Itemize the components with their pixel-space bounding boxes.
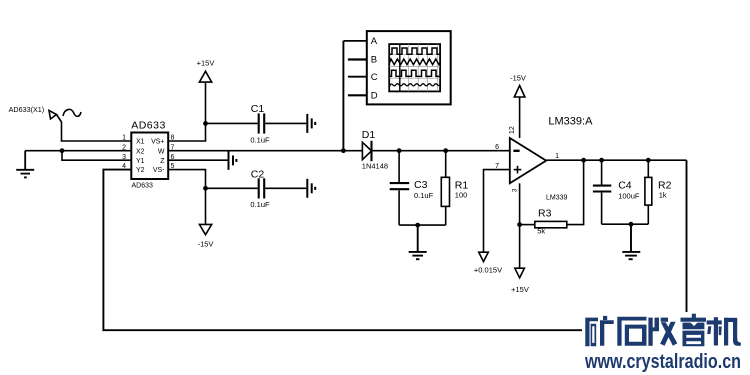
svg-text:A: A xyxy=(371,36,378,47)
svg-text:+15V: +15V xyxy=(511,285,529,294)
svg-text:+15V: +15V xyxy=(197,59,215,68)
svg-text:B: B xyxy=(371,55,377,66)
ground G1 xyxy=(16,151,34,178)
wire pin6 Z xyxy=(168,159,227,161)
wire plus input xyxy=(484,170,510,253)
char yin xyxy=(681,314,707,347)
wire C3 R1 bottom xyxy=(399,224,446,226)
svg-text:Y2: Y2 xyxy=(136,167,145,174)
wire pin5 VS- to -15V xyxy=(168,170,205,225)
wire pin7 W output main xyxy=(168,150,362,152)
junction dot feedback tap xyxy=(581,158,586,163)
svg-text:Z: Z xyxy=(160,158,165,165)
power -15V arrow (up) xyxy=(514,86,525,98)
scope waveform D sine xyxy=(390,84,440,87)
power -15V arrow xyxy=(199,224,211,234)
capacitor C1 xyxy=(259,113,265,133)
svg-text:D1: D1 xyxy=(362,129,376,141)
scope waveform B triangle xyxy=(390,59,440,65)
svg-text:D: D xyxy=(371,90,378,101)
oscilloscope box xyxy=(367,31,451,104)
svg-text:LM339:A: LM339:A xyxy=(548,116,593,128)
plus input mark xyxy=(514,166,522,174)
svg-text:X2: X2 xyxy=(136,148,145,155)
wire C1 right xyxy=(265,122,306,124)
svg-text:www.crystalradio.cn: www.crystalradio.cn xyxy=(584,350,741,373)
svg-text:0.1uF: 0.1uF xyxy=(414,191,434,200)
scope waveform A square xyxy=(390,48,440,54)
junction dot C2 tap xyxy=(203,186,208,191)
char shou xyxy=(648,318,677,346)
wire output xyxy=(546,159,686,161)
watermark white mask xyxy=(582,312,750,375)
svg-text:0.1uF: 0.1uF xyxy=(250,200,270,209)
wire scope stub C xyxy=(348,76,367,78)
junction dot scope tap xyxy=(341,148,346,153)
svg-text:1k: 1k xyxy=(659,190,667,199)
svg-text:5k: 5k xyxy=(537,227,545,236)
resistor R2 xyxy=(645,160,652,224)
power +15V arrow (down) xyxy=(515,268,525,278)
svg-text:2: 2 xyxy=(122,144,126,151)
ground G3 xyxy=(622,224,640,259)
junction dot ground tap 2 xyxy=(629,222,634,227)
wire scope A to main node xyxy=(342,41,344,151)
minus input mark xyxy=(513,150,519,152)
diode D1 xyxy=(362,141,371,161)
svg-text:-15V: -15V xyxy=(198,240,214,249)
junction dot R2 tap xyxy=(646,158,651,163)
op-amp LM339:A triangle xyxy=(510,138,546,183)
capacitor C4 xyxy=(593,160,611,224)
wire D1 cathode to comparator xyxy=(372,150,510,152)
scope waveform C square xyxy=(390,70,440,76)
scope grid xyxy=(389,44,440,91)
char shi xyxy=(617,317,646,346)
svg-text:1: 1 xyxy=(555,153,559,160)
wire C1 left xyxy=(206,122,258,124)
wire pin12 to -15V xyxy=(519,97,521,138)
svg-text:VS+: VS+ xyxy=(151,139,164,146)
wire ground to pin2 X2 xyxy=(25,150,131,152)
svg-text:W: W xyxy=(158,148,165,155)
wire C2 right xyxy=(265,187,306,189)
resistor R3 xyxy=(520,160,584,228)
input probe antenna symbol xyxy=(49,109,81,122)
svg-text:X1: X1 xyxy=(136,139,145,146)
AD633 pin names xyxy=(136,139,165,175)
resistor R1 xyxy=(441,151,449,225)
scope screen xyxy=(389,44,440,91)
junction dot C3 tap xyxy=(397,148,402,153)
svg-text:0.1uF: 0.1uF xyxy=(250,135,270,144)
svg-text:AD633(X1): AD633(X1) xyxy=(9,105,45,114)
power +0.015V arrow (down) xyxy=(479,252,489,261)
watermark logo 矿石收音机 xyxy=(585,314,741,347)
svg-text:AD633: AD633 xyxy=(131,120,166,132)
scope grid major line xyxy=(399,44,401,91)
power +15V arrow xyxy=(199,71,211,82)
svg-text:Y1: Y1 xyxy=(136,158,145,165)
svg-text:C1: C1 xyxy=(251,103,265,115)
wire scope stub B xyxy=(348,58,367,60)
svg-text:1N4148: 1N4148 xyxy=(362,162,388,171)
svg-text:C: C xyxy=(371,72,378,83)
junction dot R1 tap xyxy=(443,148,448,153)
svg-text:C3: C3 xyxy=(414,179,428,191)
svg-text:100uF: 100uF xyxy=(618,192,640,201)
junction dot node X2/Y1 xyxy=(60,148,65,153)
capacitor C2 xyxy=(259,178,265,198)
scope channel labels xyxy=(371,36,378,101)
ground (rotated) at C2 xyxy=(307,179,315,198)
wire pin3 to +15V xyxy=(519,183,521,268)
svg-text:+0.015V: +0.015V xyxy=(474,265,502,274)
op IC AD633 U1 box xyxy=(131,133,168,180)
svg-text:LM339: LM339 xyxy=(546,195,568,202)
svg-text:6: 6 xyxy=(495,144,499,151)
wire pin3 Y1 tie xyxy=(62,151,131,161)
junction dot ground tap xyxy=(415,223,420,228)
junction dot R3 tap xyxy=(517,222,522,227)
capacitor C3 xyxy=(390,151,410,225)
junction dot C1 tap xyxy=(203,121,208,126)
wire scope stub D xyxy=(348,94,367,96)
ground G2 xyxy=(409,225,427,259)
svg-text:3: 3 xyxy=(511,188,518,192)
svg-text:3: 3 xyxy=(122,154,126,161)
svg-text:12: 12 xyxy=(509,126,516,134)
svg-text:-15V: -15V xyxy=(510,73,526,82)
junction dot C4 tap xyxy=(599,158,604,163)
ground (rotated) at C1 xyxy=(307,114,315,133)
svg-text:1: 1 xyxy=(122,135,126,142)
wire C2 left xyxy=(206,187,258,189)
AD633 pin numbers xyxy=(122,135,174,171)
wire scope stub A xyxy=(343,40,366,42)
ground (rotated) at Z xyxy=(229,151,237,170)
wire pin8 VS+ to +15V xyxy=(168,83,205,142)
wire feedback loop right/bottom/left to pin4 Y2 xyxy=(103,160,686,330)
svg-text:7: 7 xyxy=(495,163,499,170)
svg-text:R3: R3 xyxy=(538,208,552,220)
char ji xyxy=(707,317,741,346)
svg-text:AD633: AD633 xyxy=(132,183,154,190)
svg-text:C2: C2 xyxy=(251,169,265,181)
char kuang xyxy=(585,316,613,346)
wire input to pin1 X1 xyxy=(62,122,132,141)
svg-text:100: 100 xyxy=(455,190,468,199)
svg-text:C4: C4 xyxy=(618,179,632,191)
wire C4 R2 bottom xyxy=(602,223,649,225)
svg-text:VS-: VS- xyxy=(153,167,165,174)
